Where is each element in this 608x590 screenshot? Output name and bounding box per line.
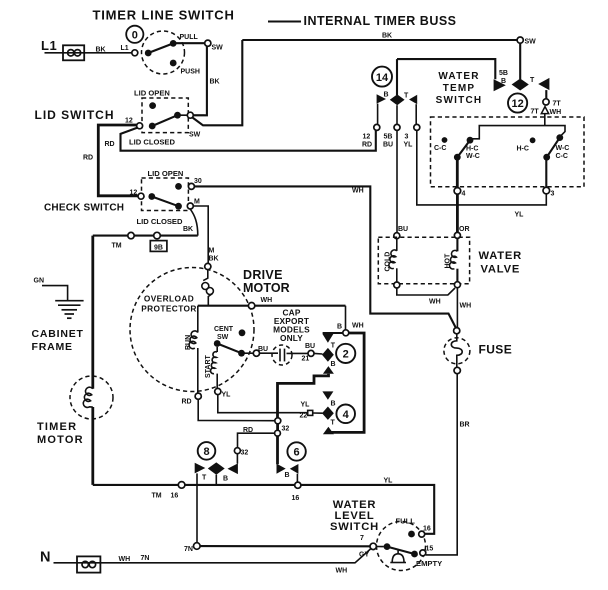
timer line switch dashed circle bbox=[142, 31, 185, 74]
svg-text:N: N bbox=[40, 550, 50, 566]
svg-text:LID CLOSED: LID CLOSED bbox=[137, 217, 184, 226]
wire PULL to SW bbox=[173, 42, 205, 44]
svg-text:WH: WH bbox=[550, 109, 562, 116]
wire buss SW down to diamond 12 bbox=[519, 43, 521, 79]
wire arc M circle to TM line bbox=[190, 209, 198, 235]
check switch contact 30 dot bbox=[175, 183, 182, 190]
wire top bar inside box bbox=[472, 126, 565, 139]
svg-text:DRIVE: DRIVE bbox=[243, 268, 283, 282]
svg-text:HOT: HOT bbox=[445, 253, 452, 269]
svg-text:TEMP: TEMP bbox=[443, 83, 476, 94]
svg-text:16: 16 bbox=[292, 495, 300, 502]
svg-text:RD: RD bbox=[362, 141, 372, 148]
connector 2 top triangle T bbox=[322, 334, 333, 343]
svg-text:BK: BK bbox=[382, 33, 392, 40]
circled 4 bbox=[336, 405, 355, 424]
hot solenoid bbox=[456, 238, 458, 251]
svg-text:FRAME: FRAME bbox=[32, 341, 73, 353]
svg-text:SWITCH: SWITCH bbox=[330, 521, 379, 533]
wire down to connector 6 bbox=[276, 436, 279, 464]
svg-text:LID OPEN: LID OPEN bbox=[148, 169, 184, 178]
svg-text:WH: WH bbox=[352, 188, 364, 195]
svg-text:LID OPEN: LID OPEN bbox=[134, 89, 170, 98]
temp switch left pivot dot bbox=[454, 154, 461, 161]
timer line switch arm bbox=[148, 43, 173, 53]
ground GN wire bbox=[42, 286, 68, 301]
terminal 5B BU bbox=[394, 124, 400, 130]
circled 0 bbox=[126, 26, 143, 43]
terminal WH motor bbox=[248, 303, 254, 309]
svg-text:15: 15 bbox=[426, 546, 434, 553]
svg-text:7N: 7N bbox=[184, 546, 193, 553]
svg-text:YL: YL bbox=[515, 212, 525, 219]
terminal 3 bbox=[543, 187, 550, 194]
temp switch left arm bbox=[457, 140, 470, 157]
svg-text:GN: GN bbox=[34, 278, 45, 285]
svg-text:MOTOR: MOTOR bbox=[243, 281, 290, 295]
timer motor coil bbox=[83, 387, 93, 407]
svg-text:B: B bbox=[384, 92, 389, 99]
junction OR bbox=[454, 232, 460, 238]
svg-text:TM: TM bbox=[152, 492, 162, 499]
wire right pivot to terminal 3 bbox=[545, 157, 547, 187]
timer motor dashed circle bbox=[70, 376, 113, 419]
svg-text:RD: RD bbox=[243, 427, 253, 434]
connector 2 bottom triangle B bbox=[323, 366, 334, 374]
svg-text:W-C: W-C bbox=[466, 153, 480, 160]
lid switch contact SW dot bbox=[174, 112, 181, 119]
circled 8 bbox=[198, 442, 216, 460]
wire L1 BK to timer line switch bbox=[45, 52, 132, 54]
connector 4 bottom triangle T bbox=[323, 427, 334, 435]
cold solenoid bbox=[396, 239, 398, 251]
svg-text:ONLY: ONLY bbox=[280, 333, 303, 343]
svg-text:B: B bbox=[337, 324, 342, 331]
terminal 15 empty bbox=[420, 550, 426, 556]
connector 14 diamond bbox=[390, 94, 405, 105]
lid switch dashed box bbox=[142, 98, 188, 133]
svg-text:M: M bbox=[194, 199, 200, 206]
wire WH N to water level switch 7 bbox=[54, 549, 371, 563]
wire 7 to pivot bbox=[376, 546, 383, 548]
svg-text:YL: YL bbox=[301, 402, 311, 409]
connector 8 diamond bbox=[208, 462, 225, 474]
terminal RD motor bbox=[195, 393, 201, 399]
svg-text:BU: BU bbox=[398, 226, 408, 233]
svg-text:FUSE: FUSE bbox=[479, 343, 513, 357]
wire to BU terminal bbox=[242, 352, 254, 354]
svg-text:12: 12 bbox=[363, 134, 371, 141]
svg-text:SW: SW bbox=[189, 132, 201, 139]
svg-text:T: T bbox=[331, 342, 336, 349]
water level switch dashed circle bbox=[377, 522, 426, 571]
wire RD from motor RD to junction 32 bbox=[198, 399, 275, 420]
svg-text:RD: RD bbox=[105, 141, 115, 148]
legend line for internal timer buss bbox=[268, 20, 301, 22]
wire YL from motor YL to terminal 22 bbox=[218, 395, 307, 413]
svg-text:WATER: WATER bbox=[479, 250, 523, 262]
terminal 7N bbox=[194, 543, 201, 550]
check switch dashed box bbox=[142, 178, 189, 211]
svg-text:BR: BR bbox=[460, 422, 470, 429]
svg-text:T: T bbox=[404, 93, 409, 100]
connector 14 stem bbox=[396, 59, 398, 95]
fuse dashed circle bbox=[444, 338, 470, 364]
wire RD from junction to connector 8 bbox=[238, 433, 275, 448]
check switch contact M dot bbox=[175, 203, 182, 210]
water temp switch dashed box bbox=[431, 117, 585, 187]
svg-text:21: 21 bbox=[302, 356, 310, 363]
contact PULL bbox=[170, 40, 177, 47]
svg-text:C-C: C-C bbox=[556, 153, 568, 160]
svg-text:WATER: WATER bbox=[438, 71, 479, 82]
svg-text:WH: WH bbox=[336, 567, 348, 574]
svg-text:LID CLOSED: LID CLOSED bbox=[129, 138, 176, 147]
check switch terminal M bbox=[187, 203, 193, 209]
svg-text:INTERNAL TIMER BUSS: INTERNAL TIMER BUSS bbox=[304, 14, 457, 28]
svg-text:B: B bbox=[501, 78, 506, 85]
wire RD heavy from lid switch 12 down to check switch 12 bbox=[98, 125, 138, 196]
terminal SW bbox=[205, 40, 211, 46]
svg-text:START: START bbox=[205, 354, 212, 378]
svg-text:L1: L1 bbox=[41, 38, 57, 53]
buss 5B B triangle bbox=[494, 79, 506, 91]
svg-text:7: 7 bbox=[360, 535, 364, 542]
svg-text:FULL: FULL bbox=[396, 517, 416, 526]
wire BU to capacitor bbox=[260, 352, 279, 354]
wire triangle down to 7T bbox=[545, 90, 547, 99]
circled 2 bbox=[336, 344, 355, 363]
lid switch wire to SW bbox=[178, 114, 205, 116]
junction BU bbox=[394, 233, 400, 239]
wire to connector 2 diamond bbox=[314, 352, 323, 355]
svg-text:32: 32 bbox=[282, 426, 290, 433]
svg-text:BU: BU bbox=[258, 346, 268, 353]
svg-text:16: 16 bbox=[423, 526, 431, 533]
svg-text:BK: BK bbox=[209, 256, 219, 263]
connector 14 right triangle T bbox=[409, 95, 417, 105]
lid switch arm bbox=[152, 115, 177, 126]
svg-text:WH: WH bbox=[119, 556, 131, 563]
wire connector 8 T down to 7N bbox=[196, 473, 198, 542]
svg-text:BU: BU bbox=[383, 141, 393, 148]
check switch pivot bbox=[148, 193, 155, 200]
wire OR from terminal 4 to water valve bbox=[456, 194, 459, 232]
temp switch left contact dot bbox=[467, 137, 474, 144]
svg-text:RD: RD bbox=[182, 399, 192, 406]
svg-text:BK: BK bbox=[96, 47, 106, 54]
svg-text:BU: BU bbox=[305, 343, 315, 350]
svg-text:YL: YL bbox=[384, 478, 394, 485]
svg-text:TIMER LINE SWITCH: TIMER LINE SWITCH bbox=[93, 8, 235, 23]
pressure bell bbox=[392, 554, 404, 563]
svg-text:TIMER: TIMER bbox=[37, 421, 77, 433]
terminal 32 lower bbox=[234, 448, 240, 454]
svg-text:B: B bbox=[331, 400, 336, 407]
wire RD from lid switch 12 to connector 14 (12 RD) bbox=[121, 128, 376, 151]
terminal 4 bbox=[454, 188, 461, 195]
svg-text:T: T bbox=[530, 77, 535, 84]
svg-text:4: 4 bbox=[462, 191, 466, 198]
svg-text:8: 8 bbox=[203, 446, 209, 458]
svg-text:14: 14 bbox=[376, 72, 389, 84]
terminal 16 full bbox=[419, 531, 425, 537]
svg-text:CABINET: CABINET bbox=[32, 328, 84, 340]
connector 6 right triangle bbox=[290, 464, 299, 474]
terminal YL motor bbox=[215, 388, 221, 394]
contact PUSH bbox=[170, 60, 177, 67]
svg-text:3: 3 bbox=[551, 191, 555, 198]
svg-text:CHECK SWITCH: CHECK SWITCH bbox=[44, 203, 124, 214]
connector 6 left triangle bbox=[277, 464, 286, 474]
cent sw pivot bbox=[214, 340, 221, 347]
drive motor dashed circle bbox=[130, 268, 254, 392]
wire bracket right of connectors 2/4 bbox=[330, 333, 364, 432]
terminal 16 on line bbox=[295, 482, 301, 488]
terminal 7T circle bbox=[543, 99, 549, 105]
wire WH motor top bbox=[198, 305, 346, 307]
svg-text:SW: SW bbox=[212, 45, 224, 52]
svg-text:OR: OR bbox=[459, 226, 470, 233]
lid switch terminal SW bbox=[187, 112, 193, 118]
wire long TM16-YL horizontal bbox=[93, 485, 434, 534]
buss diamond T bbox=[512, 79, 529, 91]
cent sw contact dot bbox=[238, 350, 245, 357]
wire left main vertical to timer motor and TM16 line bbox=[91, 236, 94, 389]
capacitor C1 dashed circle bbox=[272, 345, 292, 365]
wire BU from 5B BU to water valve bbox=[396, 130, 398, 232]
water level contact full dot bbox=[408, 531, 415, 538]
wire GY 7N to water level switch 7 bbox=[200, 545, 370, 547]
connector 4 top triangle B bbox=[322, 391, 333, 399]
svg-text:SW: SW bbox=[525, 39, 537, 46]
wire 7T into water temp switch bbox=[544, 114, 546, 126]
cold bottom terminal bbox=[394, 282, 400, 288]
svg-text:12: 12 bbox=[125, 118, 133, 125]
water valve dashed box bbox=[378, 237, 469, 284]
svg-text:12: 12 bbox=[511, 98, 523, 110]
svg-text:WH: WH bbox=[352, 323, 364, 330]
wire left pivot to terminal 4 bbox=[456, 157, 459, 188]
wire connector 6 to terminal 16 bbox=[296, 474, 298, 483]
svg-text:16: 16 bbox=[171, 492, 179, 499]
wire M from check switch to overload protector bbox=[193, 206, 208, 263]
terminal TM 16 bbox=[178, 482, 185, 489]
hot bottom terminal bbox=[454, 282, 460, 288]
terminal 22 YL bbox=[308, 410, 313, 415]
wire BR fuse to water level switch bbox=[426, 374, 457, 555]
svg-text:2: 2 bbox=[343, 349, 349, 361]
wire 22 to diamond 4 bbox=[313, 412, 323, 414]
svg-text:EMPTY: EMPTY bbox=[416, 559, 442, 568]
water level pivot dot bbox=[384, 543, 391, 550]
svg-text:B: B bbox=[331, 361, 336, 368]
svg-text:MOTOR: MOTOR bbox=[37, 434, 84, 446]
svg-text:30: 30 bbox=[194, 178, 202, 185]
svg-text:SWITCH: SWITCH bbox=[436, 95, 483, 106]
terminal 12 RD bbox=[374, 124, 380, 130]
fuse top terminal bbox=[454, 328, 460, 334]
water level arm bbox=[387, 547, 415, 554]
check switch arm bbox=[152, 197, 179, 207]
svg-text:9B: 9B bbox=[154, 244, 163, 251]
buss terminal SW bbox=[517, 37, 523, 43]
circled 14 bbox=[372, 67, 392, 87]
wire BK from SW down to lid switch bbox=[193, 46, 207, 115]
terminal 3 YL bbox=[414, 124, 420, 130]
temp switch contact C-C dot bbox=[442, 137, 448, 143]
overload protector terminal circle bbox=[205, 263, 211, 269]
svg-text:7N: 7N bbox=[141, 555, 150, 562]
connector 8 left triangle T bbox=[195, 463, 206, 474]
svg-text:3: 3 bbox=[405, 134, 409, 141]
svg-text:RUN: RUN bbox=[185, 335, 192, 350]
terminal BU motor bbox=[253, 350, 259, 356]
svg-text:T: T bbox=[202, 474, 207, 481]
timer line switch terminal L1 bbox=[132, 50, 138, 56]
buss drop wire to lid switch SW bbox=[193, 40, 243, 125]
temp switch contact H-C dot bbox=[530, 137, 536, 143]
lid switch contact LID OPEN bbox=[149, 102, 156, 109]
svg-text:C-C: C-C bbox=[434, 145, 446, 152]
svg-text:LID SWITCH: LID SWITCH bbox=[35, 108, 115, 122]
temp switch right pivot dot bbox=[543, 154, 550, 161]
svg-text:SW: SW bbox=[217, 334, 229, 341]
timer line switch pivot bbox=[145, 50, 152, 57]
ground cabinet frame symbol bbox=[55, 301, 83, 319]
run winding branch bbox=[197, 306, 199, 333]
svg-text:12: 12 bbox=[130, 190, 138, 197]
svg-text:T: T bbox=[331, 420, 336, 427]
svg-text:22: 22 bbox=[300, 413, 308, 420]
water level contact empty dot bbox=[411, 551, 418, 558]
wire WH motor down to B WH terminal bbox=[345, 306, 347, 330]
svg-text:TM: TM bbox=[112, 243, 122, 250]
fuse element bbox=[451, 334, 462, 368]
svg-text:B: B bbox=[285, 472, 290, 479]
wire B WH left to connector 2 top triangle bbox=[323, 332, 343, 334]
svg-text:0: 0 bbox=[132, 30, 138, 42]
svg-text:H-C: H-C bbox=[466, 146, 478, 153]
overload protector element bbox=[203, 270, 208, 281]
svg-text:5B: 5B bbox=[499, 70, 508, 77]
terminal 9B bbox=[154, 232, 161, 239]
connector 8 right triangle bbox=[228, 463, 238, 474]
connector 2 diamond bbox=[322, 348, 334, 362]
terminal B WH bbox=[343, 330, 349, 336]
circled 12 bbox=[508, 93, 527, 112]
wire WH valve to fuse bbox=[456, 288, 458, 328]
wire 32 to connector 8 right triangle bbox=[236, 454, 238, 464]
svg-text:7T: 7T bbox=[553, 101, 562, 108]
wire TM horizontal bbox=[93, 235, 198, 237]
svg-text:WH: WH bbox=[460, 303, 472, 310]
junction circle lower bbox=[275, 430, 281, 436]
svg-text:YL: YL bbox=[222, 392, 232, 399]
svg-text:COLD: COLD bbox=[385, 252, 392, 272]
terminal 7T triangle open bbox=[541, 107, 548, 114]
svg-text:7T: 7T bbox=[531, 109, 540, 116]
terminal TM bbox=[128, 232, 134, 238]
wire step from connector2 B down to junction 32 bbox=[278, 374, 329, 418]
svg-text:6: 6 bbox=[294, 447, 300, 459]
svg-text:BK: BK bbox=[210, 79, 220, 86]
svg-text:32: 32 bbox=[241, 450, 249, 457]
capacitor plates bbox=[279, 349, 281, 362]
wire YL from terminal 3 to 3 YL bbox=[417, 131, 547, 205]
wire WH from 30 to fuse bbox=[194, 186, 455, 327]
svg-text:YL: YL bbox=[404, 141, 414, 148]
svg-text:WH: WH bbox=[261, 297, 273, 304]
wire WH joining valve outputs bbox=[397, 288, 455, 295]
svg-text:PULL: PULL bbox=[180, 34, 199, 41]
wire connector 8 diamond to line bbox=[215, 475, 217, 485]
svg-text:B: B bbox=[223, 475, 228, 482]
wire horizontal to 5B B triangle bbox=[397, 59, 495, 79]
svg-text:PROTECTOR: PROTECTOR bbox=[141, 304, 197, 314]
connector 4 diamond bbox=[322, 407, 334, 420]
lid switch pivot bbox=[149, 123, 156, 130]
fuse bottom terminal bbox=[454, 367, 460, 373]
svg-text:VALVE: VALVE bbox=[481, 264, 521, 276]
junction circle 32 upper bbox=[275, 418, 281, 424]
svg-text:BK: BK bbox=[183, 226, 193, 233]
cent sw upper contact dot bbox=[239, 329, 246, 336]
svg-text:H-C: H-C bbox=[517, 146, 529, 153]
svg-text:RD: RD bbox=[83, 155, 93, 162]
internal timer buss wire BK bbox=[242, 39, 517, 41]
temp switch right contact dot bbox=[556, 134, 563, 141]
svg-text:OVERLOAD: OVERLOAD bbox=[144, 294, 194, 304]
wire capacitor to terminal 21 BU bbox=[287, 352, 308, 354]
temp switch right arm bbox=[547, 138, 560, 158]
svg-text:L1: L1 bbox=[121, 45, 129, 52]
svg-text:5B: 5B bbox=[384, 134, 393, 141]
cent sw arm bbox=[217, 344, 241, 354]
svg-text:W-C: W-C bbox=[556, 145, 570, 152]
terminal 21 BU bbox=[308, 350, 314, 356]
buss right triangle bbox=[538, 78, 549, 90]
svg-text:CENT: CENT bbox=[214, 326, 234, 333]
svg-text:4: 4 bbox=[343, 409, 350, 421]
connector 14 left triangle B bbox=[377, 94, 386, 103]
svg-text:PUSH: PUSH bbox=[181, 69, 200, 76]
svg-text:M: M bbox=[209, 248, 215, 255]
start winding bbox=[216, 347, 218, 352]
svg-text:WH: WH bbox=[429, 299, 441, 306]
wires from connector 14 to terminals bbox=[377, 104, 379, 125]
circled 6 bbox=[287, 442, 305, 460]
